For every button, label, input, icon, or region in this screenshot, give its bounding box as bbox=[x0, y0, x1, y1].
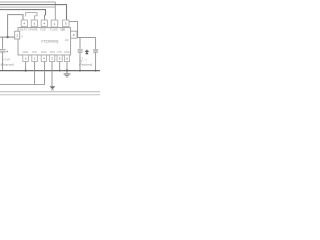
svg-text:2: 2 bbox=[16, 34, 18, 38]
svg-text:GND: GND bbox=[40, 27, 46, 31]
svg-text:8: 8 bbox=[73, 33, 75, 37]
svg-text:3: 3 bbox=[25, 57, 27, 61]
svg-text:PWRE: PWRE bbox=[30, 27, 38, 31]
svg-text:5: 5 bbox=[59, 57, 61, 61]
svg-text:GND: GND bbox=[64, 50, 70, 54]
svg-text:RTS: RTS bbox=[50, 50, 55, 54]
svg-text:4.7 uF: 4.7 uF bbox=[2, 58, 10, 62]
svg-text:1: 1 bbox=[34, 57, 36, 61]
svg-text:TXLED: TXLED bbox=[50, 27, 58, 31]
svg-text:V: V bbox=[21, 34, 23, 38]
svg-text:(Required): (Required) bbox=[79, 63, 92, 67]
svg-text:6: 6 bbox=[66, 57, 68, 61]
svg-text:4: 4 bbox=[43, 22, 45, 26]
svg-text:5: 5 bbox=[65, 22, 67, 26]
svg-text:CTS: CTS bbox=[57, 50, 62, 54]
svg-text:CBS: CBS bbox=[60, 27, 65, 31]
svg-text:4: 4 bbox=[23, 22, 25, 26]
svg-text:4: 4 bbox=[43, 57, 45, 61]
svg-text:1nF: 1nF bbox=[65, 38, 70, 42]
svg-text:(Required): (Required) bbox=[1, 62, 14, 66]
svg-text:FT230XS/Q: FT230XS/Q bbox=[42, 40, 59, 44]
svg-text:RXD: RXD bbox=[41, 50, 47, 54]
svg-text:VBAT.C: VBAT.C bbox=[20, 27, 31, 31]
svg-text:+: + bbox=[6, 49, 9, 54]
svg-text:TXD: TXD bbox=[32, 50, 37, 54]
svg-text:2: 2 bbox=[51, 57, 53, 61]
svg-text:+: + bbox=[85, 58, 87, 61]
svg-text:1: 1 bbox=[54, 22, 56, 26]
svg-text:GND: GND bbox=[23, 50, 29, 54]
svg-text:3: 3 bbox=[33, 22, 35, 26]
